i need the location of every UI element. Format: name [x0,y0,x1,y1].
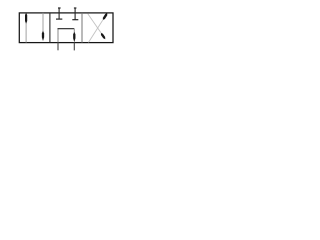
right square diagonal 1 line [88,14,102,34]
middle square blocked port stub A [58,8,60,19]
valve body outline [19,13,113,43]
stub A blocked bar [56,18,62,20]
position divider right [81,13,83,43]
stub A top tick [58,7,61,9]
bypass down-arrow head [73,32,75,42]
position divider left [49,13,51,43]
right square diagonal 2 arrow head [103,13,108,20]
middle square blocked port stub B [74,8,76,20]
left square up-arrow shaft [25,22,27,43]
bypass path horizontal [58,28,75,30]
stub B top tick [74,7,77,9]
right square diagonal 1 arrow head [101,33,105,39]
stub B blocked bar [72,19,78,21]
hydraulic 4/3 directional control valve schematic [0,0,121,57]
bottom port T line [73,42,75,50]
bypass path right vertical [73,29,75,33]
left square up-arrow head [25,13,27,24]
bottom port P line [57,42,59,50]
right square diagonal 2 line [89,19,104,42]
bypass path left vertical [57,29,59,43]
left square down-arrow shaft [42,13,44,32]
left square down-arrow head [42,31,44,41]
